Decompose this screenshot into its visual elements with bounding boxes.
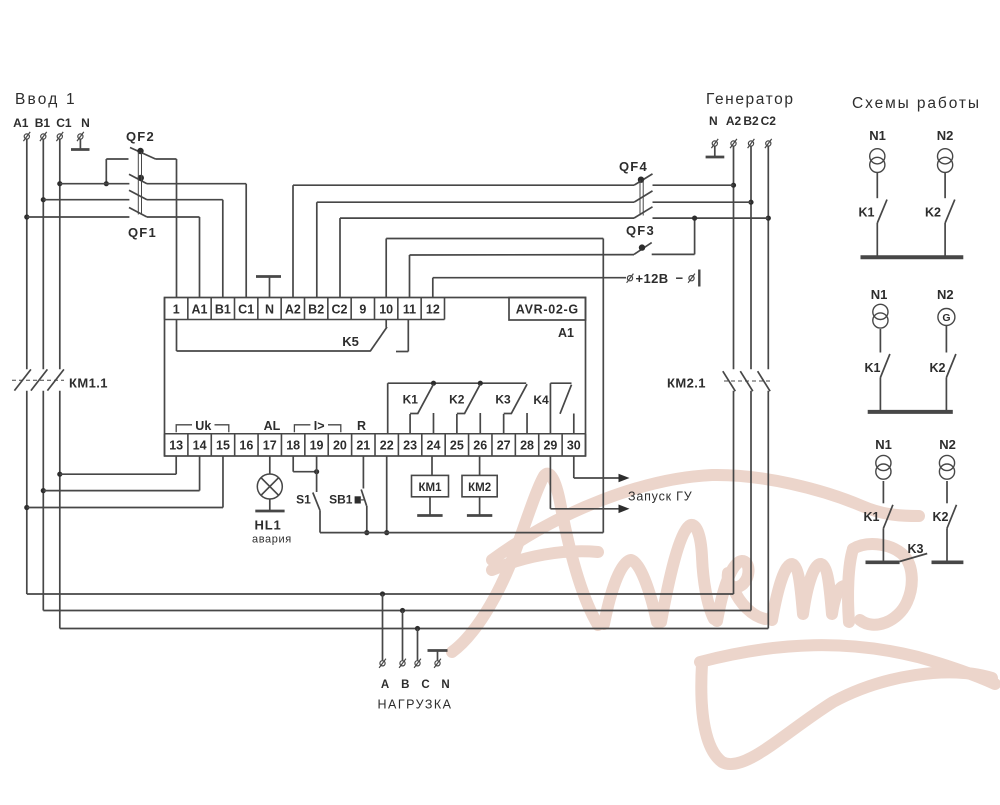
busbar scheme3 right [932, 560, 964, 564]
wire internal K rail [388, 383, 527, 434]
node C1-term13 tap [57, 472, 62, 477]
relay contact K1 [403, 384, 434, 434]
switch K2 scheme1 [925, 173, 955, 256]
svg-text:N: N [81, 116, 90, 130]
svg-text:КМ1.1: КМ1.1 [69, 376, 108, 391]
svg-text:K1: K1 [403, 393, 419, 407]
svg-text:КМ2: КМ2 [468, 482, 491, 494]
switch K1 scheme2 [865, 329, 890, 410]
terminal B1 input [35, 116, 51, 141]
node B1-term14 tap [41, 488, 46, 493]
transformer N2 scheme1 [938, 149, 953, 173]
neutral bar block N [256, 277, 281, 298]
wire bus phase A [27, 593, 734, 595]
svg-text:А: А [381, 679, 389, 691]
breaker QF4 [293, 159, 768, 218]
generator G scheme2 [938, 309, 955, 326]
bar +12V [698, 270, 700, 287]
svg-text:N2: N2 [939, 437, 956, 452]
svg-text:27: 27 [497, 439, 511, 453]
svg-text:25: 25 [450, 439, 464, 453]
svg-text:24: 24 [427, 439, 441, 453]
transformer N1 scheme3 [876, 455, 891, 479]
wire terminal22 drop [386, 456, 388, 533]
svg-text:A1: A1 [192, 303, 208, 317]
terminal N generator [709, 114, 718, 148]
wire B1 riser [42, 140, 44, 611]
node bus A load tap [380, 591, 385, 596]
terminal C1 input [56, 116, 72, 141]
svg-text:N2: N2 [937, 287, 954, 302]
svg-text:+12В: +12В [636, 271, 669, 286]
svg-text:K4: K4 [533, 393, 549, 407]
switch K2 scheme2 [930, 326, 956, 411]
terminal load C [414, 659, 430, 691]
label N1 scheme1 [869, 128, 886, 143]
label N1 scheme3 [875, 437, 892, 452]
switch K2 scheme3 [933, 481, 957, 561]
svg-text:13: 13 [169, 439, 183, 453]
node QF3-C2 line [692, 216, 697, 221]
svg-text:N1: N1 [875, 437, 892, 452]
terminal load B [399, 659, 409, 691]
wire C2 gen riser [767, 147, 769, 629]
svg-text:QF2: QF2 [126, 129, 155, 144]
node K1 rail [431, 381, 436, 386]
label Схемы работы [852, 95, 981, 112]
switch K1 scheme3 [864, 481, 893, 561]
wire terminal30 start [574, 456, 630, 482]
label Запуск ГУ [628, 490, 692, 504]
neutral bar generator N [706, 147, 725, 158]
wire terminal18 jumper [293, 456, 316, 472]
node K2 rail [478, 381, 483, 386]
svg-text:Генератор: Генератор [706, 91, 795, 108]
svg-text:R: R [357, 419, 366, 433]
svg-text:14: 14 [193, 439, 207, 453]
breaker QF2 [106, 129, 176, 159]
label N1 scheme2 [871, 287, 888, 302]
label Uk group [176, 419, 229, 433]
breaker QF1 [27, 152, 246, 240]
switch SB1 [329, 456, 367, 533]
svg-text:N1: N1 [871, 287, 888, 302]
svg-text:22: 22 [380, 439, 394, 453]
svg-text:N: N [265, 303, 274, 317]
lamp HL1 [257, 456, 282, 511]
svg-text:AL: AL [264, 419, 281, 433]
wire terminal13 tap [60, 456, 176, 474]
node bus C load tap [415, 626, 420, 631]
node term22 rail [384, 530, 389, 535]
svg-text:QF3: QF3 [626, 223, 655, 238]
wire B1 to block [222, 200, 224, 298]
wire bottom rail [320, 532, 603, 534]
terminal +12V left [627, 274, 634, 283]
transformer N1 scheme2 [873, 304, 888, 328]
svg-text:N: N [709, 114, 718, 128]
wire terminal29 start [550, 456, 629, 513]
svg-text:K1: K1 [865, 361, 881, 375]
svg-text:SB1: SB1 [329, 493, 353, 507]
svg-text:C1: C1 [56, 116, 72, 130]
node B1-QF1 tap [41, 197, 46, 202]
node B2 line tap [748, 200, 753, 205]
node A1-QF1 tap [24, 214, 29, 219]
svg-text:N1: N1 [869, 128, 886, 143]
svg-text:AVR-02-G: AVR-02-G [516, 303, 579, 317]
busbar scheme2 [868, 410, 953, 414]
wire A1 to block [199, 217, 201, 298]
svg-text:21: 21 [356, 439, 370, 453]
svg-text:30: 30 [567, 439, 581, 453]
svg-text:C2: C2 [761, 114, 777, 128]
terminal load N [434, 659, 450, 691]
svg-text:A1: A1 [558, 326, 574, 340]
wire load drop C [417, 629, 419, 661]
svg-text:S1: S1 [296, 493, 311, 507]
wire C1 to block [245, 184, 247, 298]
label A1 designator [558, 326, 574, 340]
svg-text:Схемы работы: Схемы работы [852, 95, 981, 112]
switch S1 [296, 456, 320, 533]
svg-text:K2: K2 [925, 206, 941, 220]
svg-text:K2: K2 [933, 510, 949, 524]
label I> group [294, 419, 340, 433]
terminal +12V right [688, 274, 695, 283]
wire right vertical [602, 239, 604, 533]
svg-text:N: N [441, 679, 449, 691]
label R [357, 419, 366, 433]
svg-text:КМ2.1: КМ2.1 [667, 376, 706, 391]
svg-text:−: − [676, 271, 684, 286]
svg-text:29: 29 [543, 439, 557, 453]
busbar scheme1 [861, 255, 964, 259]
node C2 line tap [766, 216, 771, 221]
svg-text:B1: B1 [215, 303, 231, 317]
ground bar КМ1 [417, 514, 442, 517]
svg-text:HL1: HL1 [255, 518, 282, 533]
label авария [252, 534, 292, 546]
svg-text:11: 11 [403, 303, 416, 317]
switch K3 scheme3 [900, 542, 928, 562]
wire block C2 riser [339, 218, 341, 297]
svg-text:I>: I> [314, 419, 325, 433]
terminal row 13..30 [165, 434, 586, 456]
label НАГРУЗКА [377, 698, 452, 712]
wire B2 gen riser [750, 147, 752, 611]
svg-text:НАГРУЗКА: НАГРУЗКА [377, 698, 452, 712]
relay contact K4 [533, 383, 573, 434]
wire terminal1 internal [177, 320, 371, 352]
terminal load A [379, 659, 389, 691]
svg-text:G: G [942, 312, 950, 324]
wire bus phase B [43, 610, 751, 612]
wire A2 gen riser [733, 147, 735, 595]
wire terminal12 +12V line [433, 278, 626, 298]
wire terminal11 line [410, 255, 635, 298]
label Ввод 1 [15, 91, 77, 108]
label N2 scheme2 [937, 287, 954, 302]
device AVR-02-G block outline [165, 298, 586, 457]
svg-text:B1: B1 [35, 116, 51, 130]
svg-text:N2: N2 [937, 128, 954, 143]
wire block A2 riser [292, 185, 294, 297]
label Генератор [706, 91, 795, 108]
wire block B2 riser [316, 202, 318, 297]
transformer N2 scheme3 [939, 455, 954, 479]
relay contact K3 [495, 384, 527, 434]
contactor coil КМ1 [412, 456, 449, 515]
svg-text:20: 20 [333, 439, 347, 453]
label HL1 [255, 518, 282, 533]
relay contact K2 [449, 384, 480, 434]
svg-text:12: 12 [426, 303, 440, 317]
svg-text:C2: C2 [332, 303, 348, 317]
svg-text:K2: K2 [449, 393, 465, 407]
terminal row 1..12 [165, 298, 445, 320]
svg-text:C1: C1 [238, 303, 254, 317]
relay contact K5 [342, 320, 408, 352]
wire terminal10 bracket [386, 239, 603, 298]
wire QF3 right up [694, 218, 696, 254]
svg-text:B2: B2 [743, 114, 759, 128]
switch K1 scheme1 [859, 173, 887, 256]
svg-text:K1: K1 [859, 206, 875, 220]
wire load drop A [382, 594, 384, 660]
label N2 scheme1 [937, 128, 954, 143]
wire C1 riser [59, 140, 61, 629]
svg-text:В: В [401, 679, 409, 691]
node QF2-C1 line [104, 181, 109, 186]
svg-text:K1: K1 [864, 510, 880, 524]
svg-text:26: 26 [473, 439, 487, 453]
neutral bar load N [428, 651, 448, 661]
node SB1 rail [364, 530, 369, 535]
svg-text:A1: A1 [13, 116, 29, 130]
module label box AVR-02-G [509, 298, 586, 321]
wire QF2 left drop [105, 159, 107, 184]
terminal N input [77, 116, 90, 141]
svg-text:1: 1 [173, 303, 180, 317]
terminal A2 generator [726, 114, 742, 148]
contactor contact KM1.1 [12, 369, 108, 390]
contactor contact KM2.1 [667, 371, 772, 391]
svg-text:A2: A2 [285, 303, 301, 317]
wire terminal15 tap [27, 456, 223, 508]
label N2 scheme3 [939, 437, 956, 452]
wire terminal1 riser [176, 159, 178, 298]
svg-text:16: 16 [239, 439, 253, 453]
svg-text:K2: K2 [930, 361, 946, 375]
contactor coil КМ2 [462, 456, 497, 515]
svg-text:QF1: QF1 [128, 225, 157, 240]
label +12В [636, 271, 684, 287]
node A1-term15 tap [24, 505, 29, 510]
node A2 line tap [731, 183, 736, 188]
svg-text:КМ1: КМ1 [419, 482, 443, 494]
terminal A1 input [13, 116, 30, 141]
wire A1 riser [26, 140, 28, 595]
ground bar КМ2 [467, 514, 492, 517]
transformer N1 scheme1 [870, 149, 885, 173]
svg-text:28: 28 [520, 439, 534, 453]
breaker QF3 [626, 223, 695, 254]
wire load drop B [402, 611, 404, 661]
svg-text:9: 9 [359, 303, 366, 317]
wire bus phase C [60, 628, 769, 630]
svg-text:Запуск ГУ: Запуск ГУ [628, 490, 692, 504]
ground bar HL1 [255, 510, 284, 513]
svg-text:23: 23 [403, 439, 417, 453]
svg-text:K3: K3 [495, 393, 511, 407]
svg-text:K5: K5 [342, 334, 359, 349]
svg-text:18: 18 [286, 439, 300, 453]
svg-text:Ввод 1: Ввод 1 [15, 91, 77, 108]
svg-text:10: 10 [379, 303, 393, 317]
svg-text:17: 17 [263, 439, 277, 453]
node bus B load tap [400, 608, 405, 613]
svg-text:19: 19 [310, 439, 324, 453]
svg-text:B2: B2 [308, 303, 324, 317]
svg-text:авария: авария [252, 534, 292, 546]
busbar scheme3 left [866, 560, 900, 564]
node C1-QF1 tap [57, 181, 62, 186]
svg-text:K3: K3 [908, 542, 924, 556]
svg-text:QF4: QF4 [619, 159, 648, 174]
neutral bar input N [71, 140, 90, 150]
wire terminal14 tap [43, 456, 199, 491]
terminal B2 generator [743, 114, 759, 148]
node jumper-19 [314, 469, 319, 474]
svg-text:Uk: Uk [195, 419, 211, 433]
svg-text:С: С [421, 679, 429, 691]
label AL [264, 419, 281, 433]
terminal C2 generator [761, 114, 777, 148]
svg-text:15: 15 [216, 439, 230, 453]
svg-text:A2: A2 [726, 114, 742, 128]
